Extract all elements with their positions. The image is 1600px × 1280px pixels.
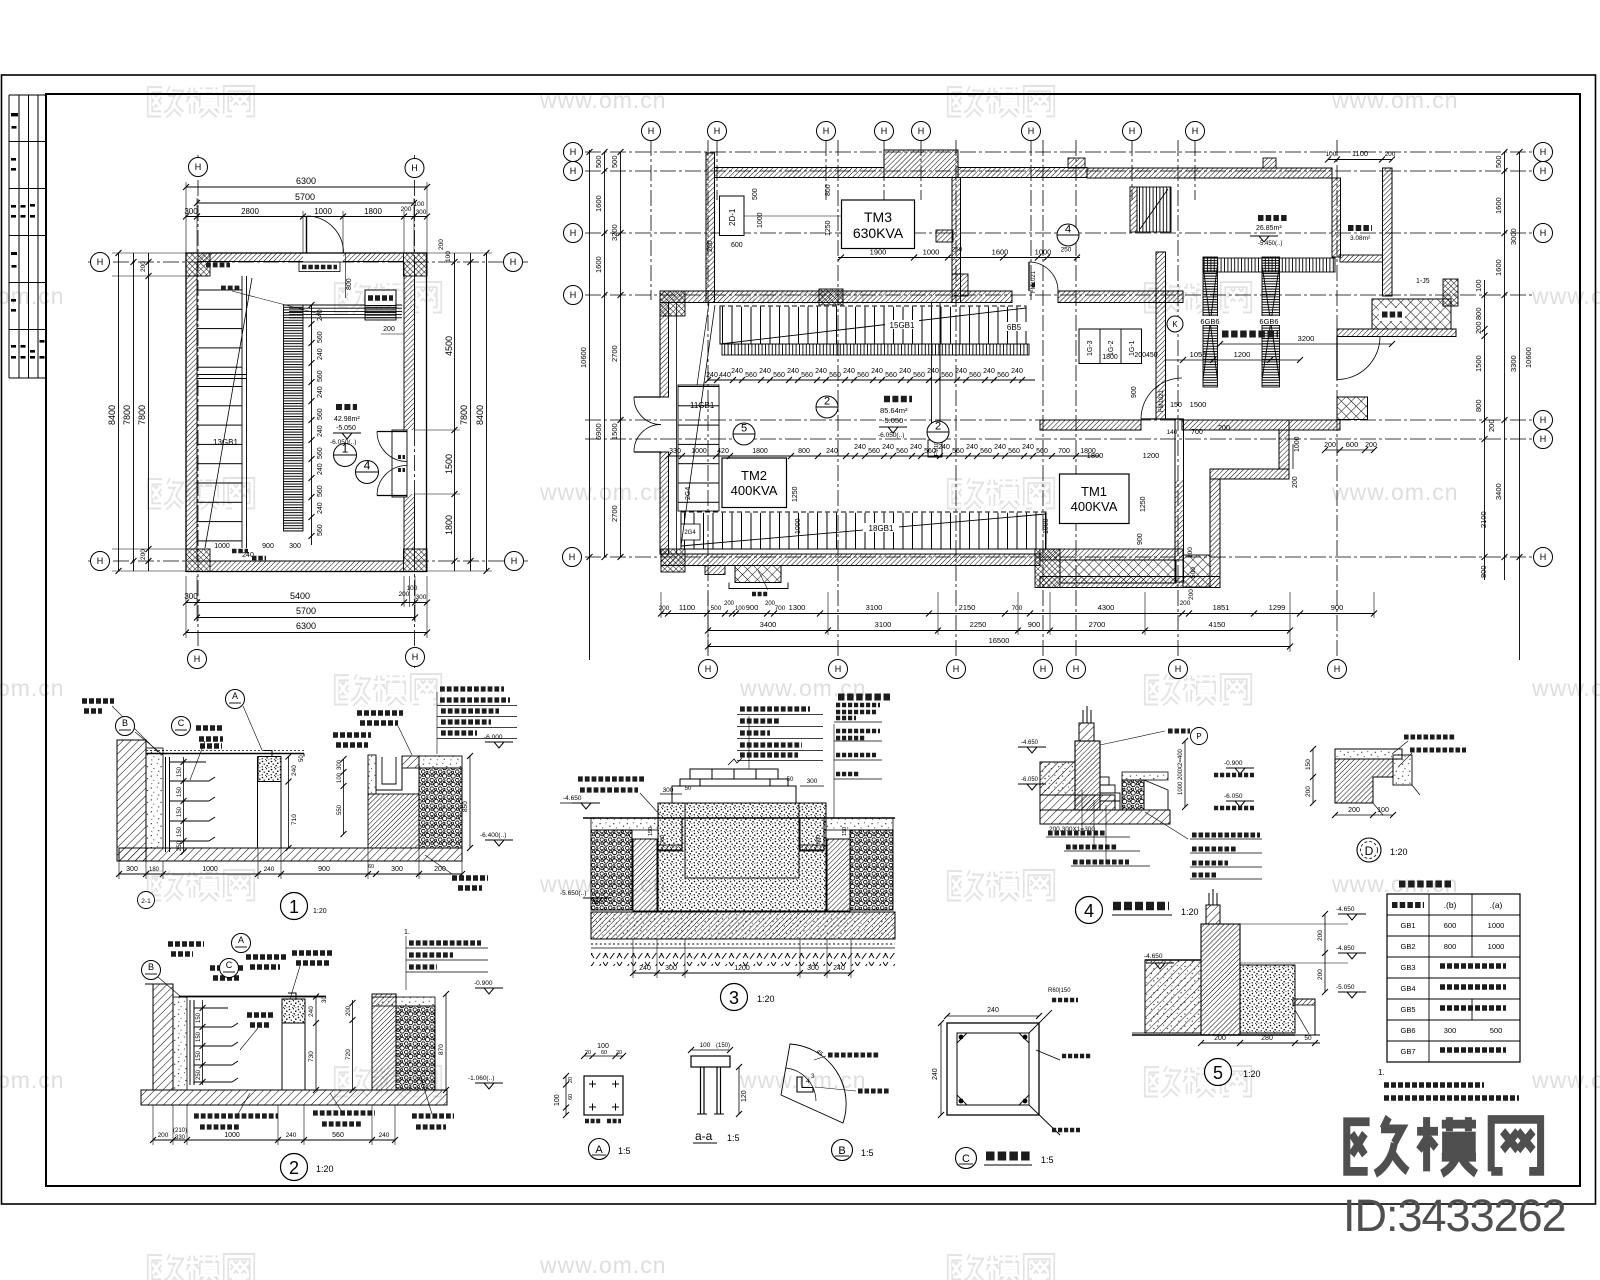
svg-text:560: 560 xyxy=(829,372,841,379)
svg-text:560: 560 xyxy=(885,372,897,379)
svg-text:700: 700 xyxy=(1058,448,1070,455)
svg-text:1:20: 1:20 xyxy=(1181,907,1199,917)
svg-text:8400: 8400 xyxy=(107,405,117,425)
svg-text:200: 200 xyxy=(1292,476,1299,488)
callout bubbles xyxy=(116,717,135,736)
left block xyxy=(1145,960,1201,1033)
table title xyxy=(1399,881,1451,888)
svg-text:560: 560 xyxy=(868,448,880,455)
svg-text:42.98m²: 42.98m² xyxy=(334,416,360,423)
svg-text:240: 240 xyxy=(291,765,298,776)
svg-text:R60|150: R60|150 xyxy=(1048,988,1071,994)
right leader list xyxy=(437,692,517,754)
svg-text:240: 240 xyxy=(987,1007,999,1014)
top leader list xyxy=(737,715,823,770)
svg-text:200: 200 xyxy=(1487,419,1496,432)
svg-text:240: 240 xyxy=(815,368,827,375)
svg-text:.(a): .(a) xyxy=(1490,900,1503,910)
svg-text:2-1: 2-1 xyxy=(141,898,151,905)
svg-text:200: 200 xyxy=(434,866,446,873)
long dim row mid hall y456 xyxy=(668,455,1100,457)
svg-text:1100: 1100 xyxy=(1352,149,1368,158)
svg-text:300: 300 xyxy=(184,207,198,216)
svg-text:6GB6: 6GB6 xyxy=(1200,317,1219,326)
svg-text:TM3: TM3 xyxy=(864,209,892,225)
top right dims xyxy=(1328,159,1392,161)
bottom dim row xyxy=(119,873,462,875)
dims xyxy=(315,997,317,1091)
generator room door (bottom-left) xyxy=(1141,378,1182,419)
svg-text:1200: 1200 xyxy=(1234,350,1251,359)
svg-text:100: 100 xyxy=(414,201,425,208)
prongs xyxy=(1209,889,1217,905)
bottom wall main hall xyxy=(661,554,1040,566)
svg-text:3300: 3300 xyxy=(1509,355,1518,372)
svg-text:B: B xyxy=(122,718,128,728)
svg-text:1000: 1000 xyxy=(1488,942,1505,951)
vent well crosshatch xyxy=(1372,299,1451,329)
svg-text:240: 240 xyxy=(882,444,894,451)
svg-text:300: 300 xyxy=(337,759,343,770)
svg-text:-5.050: -5.050 xyxy=(882,416,903,425)
svg-text:-5.050: -5.050 xyxy=(336,425,356,432)
svg-text:1100: 1100 xyxy=(679,603,695,612)
3200 dim at vent xyxy=(1220,343,1392,345)
svg-text:560: 560 xyxy=(317,447,324,459)
annotations xyxy=(210,968,244,978)
brick annotation right-top xyxy=(357,713,403,723)
svg-text:-4.650: -4.650 xyxy=(563,795,582,802)
svg-text:20: 20 xyxy=(585,1050,591,1056)
svg-text:800: 800 xyxy=(346,278,353,290)
svg-text:-6.000: -6.000 xyxy=(484,734,503,741)
lower cable tray xyxy=(681,512,1046,549)
small piers above top wall right xyxy=(1068,158,1085,168)
svg-text:560: 560 xyxy=(913,372,925,379)
hatch body L xyxy=(1335,759,1393,803)
svg-text:1000: 1000 xyxy=(1294,436,1301,452)
right level marks xyxy=(1226,768,1254,774)
svg-text:1:5: 1:5 xyxy=(861,1148,874,1158)
svg-text:300: 300 xyxy=(126,866,138,873)
svg-text:-0.900: -0.900 xyxy=(1224,760,1243,767)
gravel columns xyxy=(591,830,632,910)
vertical dim xyxy=(1184,741,1186,807)
svg-text:-1.060(..): -1.060(..) xyxy=(468,1075,494,1082)
top-right staircase xyxy=(1130,187,1171,232)
svg-text:150: 150 xyxy=(196,1012,202,1023)
850 dim xyxy=(469,756,471,848)
svg-text:200: 200 xyxy=(140,549,147,560)
detail 3 label xyxy=(721,984,748,1011)
detail 4 label xyxy=(1076,897,1103,924)
svg-text:www.om.cn: www.om.cn xyxy=(1531,1067,1600,1093)
svg-text:1000: 1000 xyxy=(1043,518,1050,534)
svg-text:500: 500 xyxy=(1494,155,1503,168)
svg-text:560: 560 xyxy=(924,448,936,455)
svg-text:200: 200 xyxy=(1305,786,1312,797)
top door FM xyxy=(306,216,308,253)
svg-text:730: 730 xyxy=(308,1051,315,1062)
top prongs xyxy=(1083,706,1091,723)
svg-text:900: 900 xyxy=(1137,533,1144,545)
svg-text:8400: 8400 xyxy=(475,405,485,425)
svg-text:6300: 6300 xyxy=(296,176,316,186)
svg-text:1000: 1000 xyxy=(1035,248,1052,257)
svg-text:B: B xyxy=(838,1145,845,1157)
svg-text:1500: 1500 xyxy=(610,423,619,440)
right brick channel xyxy=(368,755,376,794)
svg-text:.(b): .(b) xyxy=(1444,900,1457,910)
upper-left vertical wall xyxy=(706,153,715,303)
svg-text:C: C xyxy=(178,718,185,728)
svg-text:4: 4 xyxy=(1084,901,1094,921)
right leader list xyxy=(834,722,882,818)
left block xyxy=(1040,762,1075,795)
wall hatch: bottom wall xyxy=(210,561,403,572)
svg-text:200: 200 xyxy=(659,605,670,612)
svg-text:600: 600 xyxy=(1346,440,1359,449)
svg-text:150: 150 xyxy=(196,1031,202,1042)
svg-text:6300: 6300 xyxy=(296,621,316,631)
svg-text:100: 100 xyxy=(597,1043,609,1050)
watermark row 7 (clipped at bottom) xyxy=(150,1252,1052,1280)
axis bubbles right xyxy=(1534,143,1553,162)
left dimension columns xyxy=(112,253,186,571)
svg-text:4500: 4500 xyxy=(444,336,454,356)
svg-text:www.om.cn: www.om.cn xyxy=(1331,479,1459,505)
svg-text:200: 200 xyxy=(383,326,395,333)
subgrade zigzag xyxy=(591,953,895,966)
svg-text:300: 300 xyxy=(663,787,674,794)
interior partition in hall xyxy=(928,303,942,458)
svg-text:100: 100 xyxy=(407,585,418,592)
axis bubbles top xyxy=(642,122,661,141)
equipment pad stack xyxy=(672,758,796,803)
top wall mid section xyxy=(958,168,1087,178)
svg-text:1600: 1600 xyxy=(1494,259,1503,276)
svg-text:2700: 2700 xyxy=(610,505,619,522)
svg-text:280: 280 xyxy=(1261,1035,1273,1042)
svg-text:870: 870 xyxy=(438,1044,445,1055)
svg-text:3100: 3100 xyxy=(866,603,883,612)
svg-text:560: 560 xyxy=(317,524,324,536)
big OMW logo xyxy=(1347,1117,1541,1174)
vent bottom wall xyxy=(1337,329,1456,337)
svg-text:330: 330 xyxy=(175,1135,186,1141)
svg-text:3400: 3400 xyxy=(760,620,777,629)
detail a-a steel section xyxy=(691,1056,730,1067)
svg-text:560: 560 xyxy=(896,448,908,455)
svg-text:400KVA: 400KVA xyxy=(1071,499,1118,514)
svg-text:200: 200 xyxy=(707,240,714,252)
svg-text:240: 240 xyxy=(731,368,743,375)
svg-text:1:20: 1:20 xyxy=(313,908,327,915)
svg-text:240: 240 xyxy=(317,425,324,437)
svg-text:240: 240 xyxy=(317,348,324,360)
svg-text:4: 4 xyxy=(364,459,371,473)
svg-text:B: B xyxy=(148,962,154,972)
svg-text:600: 600 xyxy=(731,242,743,249)
svg-text:100: 100 xyxy=(1377,807,1389,814)
room label xyxy=(336,404,357,410)
svg-text:GB1: GB1 xyxy=(1400,921,1415,930)
axis bubbles xyxy=(189,158,208,177)
svg-text:1:20: 1:20 xyxy=(316,1164,334,1174)
bottom dims xyxy=(1201,1042,1320,1044)
stair treads xyxy=(198,276,243,546)
wall hatch: right wall xyxy=(404,276,415,430)
svg-text:560: 560 xyxy=(857,372,869,379)
generator room label xyxy=(1222,331,1278,338)
level marks xyxy=(572,803,600,809)
corner columns xyxy=(186,253,427,572)
svg-text:200: 200 xyxy=(1348,807,1360,814)
svg-text:www.om.cn: www.om.cn xyxy=(0,1067,65,1093)
svg-text:240: 240 xyxy=(1011,368,1023,375)
svg-text:-5.050: -5.050 xyxy=(1336,984,1355,991)
svg-text:1200: 1200 xyxy=(734,965,750,972)
concrete body xyxy=(658,803,826,911)
svg-text:400KVA: 400KVA xyxy=(731,483,778,498)
svg-text:240: 240 xyxy=(706,372,718,379)
cable rack post xyxy=(166,757,216,852)
svg-text:560: 560 xyxy=(1036,448,1048,455)
axis bubbles bottom xyxy=(699,660,718,679)
wall between hall and TM1 room xyxy=(1175,419,1184,582)
L step wall xyxy=(1279,430,1289,469)
svg-text:900: 900 xyxy=(746,603,759,612)
svg-text:1250: 1250 xyxy=(825,220,832,236)
svg-text:1851: 1851 xyxy=(1213,603,1230,612)
svg-text:200: 200 xyxy=(1317,969,1324,980)
svg-text:560: 560 xyxy=(745,372,757,379)
svg-text:560: 560 xyxy=(801,372,813,379)
svg-text:240: 240 xyxy=(787,368,799,375)
right upper outer wall xyxy=(1383,168,1393,296)
svg-text:800: 800 xyxy=(825,184,832,196)
svg-text:720: 720 xyxy=(345,1049,352,1060)
svg-text:60: 60 xyxy=(601,1050,607,1056)
svg-text:200: 200 xyxy=(399,591,410,598)
svg-text:2G4: 2G4 xyxy=(685,487,692,500)
svg-text:150: 150 xyxy=(177,806,183,817)
svg-text:-4.850: -4.850 xyxy=(1336,945,1355,952)
svg-text:500: 500 xyxy=(594,155,603,168)
svg-text:4: 4 xyxy=(1065,224,1071,236)
storage room bottom wall xyxy=(1340,255,1383,262)
canopy crosshatch band bottom right xyxy=(1040,549,1183,560)
svg-text:240: 240 xyxy=(317,463,324,475)
door to generator corridor (top) xyxy=(1029,262,1058,291)
top-left annotation xyxy=(82,701,114,711)
svg-text:6GB6: 6GB6 xyxy=(1259,317,1278,326)
svg-text:180: 180 xyxy=(149,867,160,873)
svg-text:3.08m²: 3.08m² xyxy=(1350,235,1371,242)
svg-text:1800: 1800 xyxy=(752,448,768,455)
svg-text:200: 200 xyxy=(346,1005,352,1016)
svg-text:500: 500 xyxy=(1490,1026,1503,1035)
svg-text:700: 700 xyxy=(775,605,786,612)
svg-text:560: 560 xyxy=(317,485,324,497)
svg-text:A: A xyxy=(595,1144,603,1156)
svg-text:150: 150 xyxy=(177,786,183,797)
svg-text:7800: 7800 xyxy=(122,405,132,425)
svg-text:FM1021: FM1021 xyxy=(1031,270,1037,293)
TM3 xyxy=(842,200,915,249)
svg-text:150: 150 xyxy=(648,827,654,836)
svg-text:7800: 7800 xyxy=(459,405,469,425)
svg-text:10600: 10600 xyxy=(1524,347,1533,368)
vent label xyxy=(1379,308,1405,321)
svg-text:3: 3 xyxy=(729,988,739,1008)
level marks xyxy=(485,742,513,748)
svg-text:1:20: 1:20 xyxy=(1243,1069,1261,1079)
svg-text:1299: 1299 xyxy=(1269,603,1286,612)
svg-text:500: 500 xyxy=(1190,567,1197,578)
svg-text:560: 560 xyxy=(952,448,964,455)
section ref circle xyxy=(138,892,155,909)
svg-text:560: 560 xyxy=(317,331,324,343)
wall hatch: top wall xyxy=(197,253,303,262)
svg-text:www.om.cn: www.om.cn xyxy=(539,1252,667,1278)
top speckle band xyxy=(591,818,658,830)
left outer wall of hall xyxy=(660,303,669,398)
levels right xyxy=(1338,914,1366,920)
hatch columns xyxy=(633,839,657,911)
axis grid lines xyxy=(585,140,1535,662)
dims under TM3 xyxy=(838,257,1080,259)
svg-text:1600: 1600 xyxy=(594,256,603,273)
svg-text:www.om.cn: www.om.cn xyxy=(1531,675,1600,701)
watermark row 6 xyxy=(0,1067,1600,1095)
right steps xyxy=(1100,777,1120,810)
svg-text:440: 440 xyxy=(719,372,731,379)
svg-text:10600: 10600 xyxy=(579,347,588,368)
svg-text:240: 240 xyxy=(955,368,967,375)
TM1 xyxy=(1060,474,1130,524)
2D-1 cabinet xyxy=(720,196,745,236)
top wall left section xyxy=(715,168,885,178)
svg-text:-6.400(..): -6.400(..) xyxy=(480,832,506,839)
svg-text:1600: 1600 xyxy=(992,248,1009,257)
svg-text:2G4: 2G4 xyxy=(684,530,696,536)
corner crosshatch at TM1 bottom xyxy=(1183,555,1210,587)
svg-text:3200: 3200 xyxy=(610,224,619,241)
svg-text:GB3: GB3 xyxy=(1400,963,1415,972)
svg-text:1-J5: 1-J5 xyxy=(1416,278,1430,285)
pier dims xyxy=(288,757,290,849)
left wall hatch xyxy=(117,740,146,861)
svg-text:TM2: TM2 xyxy=(741,468,767,483)
channels xyxy=(658,818,682,850)
svg-text:710: 710 xyxy=(291,814,298,825)
svg-text:3200: 3200 xyxy=(1298,334,1315,343)
svg-text:150: 150 xyxy=(196,1050,202,1061)
svg-text:200: 200 xyxy=(158,1132,169,1139)
svg-text:-5.650(..): -5.650(..) xyxy=(560,890,586,897)
main middle wall xyxy=(660,291,1012,303)
svg-text:800: 800 xyxy=(1474,307,1483,320)
svg-text:240: 240 xyxy=(833,965,845,972)
svg-text:2: 2 xyxy=(824,396,830,408)
base slab xyxy=(141,1090,447,1105)
detail 5 label xyxy=(1205,1059,1232,1086)
svg-text:200: 200 xyxy=(1474,321,1483,334)
dense vertical ladder (cable shaft) xyxy=(284,305,304,531)
svg-text:2700: 2700 xyxy=(610,345,619,362)
svg-text:100: 100 xyxy=(700,1042,711,1049)
svg-text:(150): (150) xyxy=(716,1043,730,1049)
svg-text:150: 150 xyxy=(177,766,183,777)
base slab xyxy=(119,848,462,861)
svg-text:1:20: 1:20 xyxy=(757,994,775,1004)
svg-text:1: 1 xyxy=(342,442,349,456)
svg-text:-4.650: -4.650 xyxy=(1144,953,1163,960)
svg-text:5700: 5700 xyxy=(295,192,315,202)
left annotation xyxy=(578,779,644,790)
svg-text:20: 20 xyxy=(616,1050,622,1056)
svg-text:1.: 1. xyxy=(1378,1068,1385,1077)
watermark row 4 xyxy=(0,675,1600,703)
bottom dimension rows xyxy=(186,576,427,638)
svg-text:6B5: 6B5 xyxy=(1007,323,1022,332)
svg-text:5: 5 xyxy=(741,423,747,435)
svg-text:2100: 2100 xyxy=(1479,511,1488,528)
svg-text:240: 240 xyxy=(639,965,651,972)
svg-text:1:5: 1:5 xyxy=(1041,1155,1054,1165)
svg-text:50: 50 xyxy=(299,755,305,762)
svg-text:1000: 1000 xyxy=(224,1132,240,1139)
dims xyxy=(1312,749,1314,803)
svg-text:500: 500 xyxy=(752,188,759,200)
tick column with 240/560 xyxy=(311,305,313,545)
svg-text:1300: 1300 xyxy=(789,603,806,612)
thick block on middle wall xyxy=(819,289,843,305)
svg-text:1:5: 1:5 xyxy=(727,1133,740,1143)
right leader list xyxy=(1190,839,1262,879)
svg-text:-4.650: -4.650 xyxy=(1021,740,1039,746)
svg-text:250: 250 xyxy=(1061,247,1072,254)
svg-text:7800: 7800 xyxy=(137,405,147,425)
svg-text:560: 560 xyxy=(980,448,992,455)
section callout 1 xyxy=(334,444,357,467)
detail B bent angle xyxy=(781,1044,846,1123)
svg-text:240: 240 xyxy=(264,866,275,873)
detail A square xyxy=(584,1076,623,1115)
svg-text:300: 300 xyxy=(807,965,819,972)
svg-text:www.om.cn: www.om.cn xyxy=(539,479,667,505)
svg-text:140: 140 xyxy=(1167,429,1178,436)
corner pier joining both bottoms xyxy=(1035,549,1060,588)
svg-text:1800: 1800 xyxy=(444,515,454,535)
svg-text:200: 200 xyxy=(1180,600,1191,607)
svg-text:2D-1: 2D-1 xyxy=(728,208,737,226)
svg-text:240: 240 xyxy=(938,444,950,451)
wall left of storage room xyxy=(1332,178,1341,257)
svg-text:GB4: GB4 xyxy=(1400,984,1415,993)
level marks xyxy=(475,988,503,994)
svg-text:100: 100 xyxy=(1474,279,1483,292)
rack dim stack xyxy=(183,757,185,852)
svg-text:4150: 4150 xyxy=(1209,620,1226,629)
detail 1 label xyxy=(281,893,308,920)
svg-text:1000: 1000 xyxy=(923,248,940,257)
detail C trench beam xyxy=(947,1023,1039,1115)
bottom-left corner xyxy=(661,549,685,572)
gravel column xyxy=(419,768,462,848)
svg-text:P: P xyxy=(1196,732,1201,741)
